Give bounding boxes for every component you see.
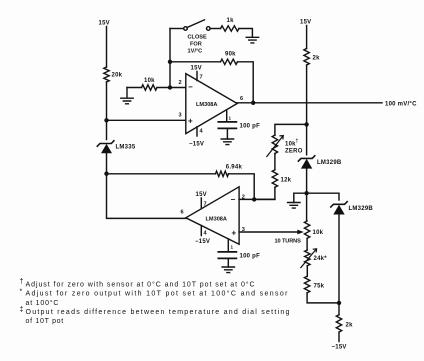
node 15V supply (right) label bbox=[300, 20, 311, 26]
svg-text:100 pF: 100 pF bbox=[240, 254, 261, 260]
ground (U2 cap) bbox=[222, 267, 234, 273]
svg-text:−: − bbox=[231, 195, 236, 204]
svg-text:15V: 15V bbox=[196, 192, 207, 198]
wire trimmer to R 75k bbox=[306, 266, 308, 277]
resistor 12k bbox=[272, 170, 277, 188]
wire R2k to -15V bbox=[338, 332, 340, 341]
node sensor bottom junction bbox=[104, 172, 108, 176]
svg-text:3: 3 bbox=[242, 227, 245, 233]
wire feedback left to R 90k bbox=[170, 61, 221, 63]
wire U1 output line bbox=[237, 102, 382, 104]
svg-text:1V/°C: 1V/°C bbox=[188, 49, 203, 55]
resistor 90k bbox=[221, 59, 238, 64]
switch S1 bbox=[170, 28, 184, 30]
svg-text:75k: 75k bbox=[314, 284, 325, 290]
svg-text:CLOSE: CLOSE bbox=[188, 35, 208, 41]
svg-text:LM335: LM335 bbox=[116, 145, 136, 151]
capacitor 100 pF (U2 comp) bbox=[227, 239, 229, 252]
node -15V supply label bbox=[332, 345, 347, 351]
trimmer 24k* bbox=[305, 250, 310, 266]
svg-text:LM329B: LM329B bbox=[349, 206, 374, 212]
svg-text:24k*: 24k* bbox=[314, 256, 328, 262]
svg-text:2: 2 bbox=[179, 80, 182, 86]
resistor 75k bbox=[304, 276, 309, 293]
resistor 2k (pull-up) bbox=[304, 49, 309, 66]
svg-text:Output reads difference betwee: Output reads difference between temperat… bbox=[26, 309, 291, 316]
resistor 2k (to -15V) bbox=[336, 315, 341, 332]
ground (U1 cap) bbox=[221, 139, 233, 145]
svg-text:Adjust for zero with sensor at: Adjust for zero with sensor at 0°C and 1… bbox=[26, 281, 256, 289]
svg-text:LM329B: LM329B bbox=[317, 160, 342, 166]
svg-text:LM308A: LM308A bbox=[196, 102, 217, 108]
node feedback-output junction bbox=[251, 101, 255, 105]
sensor LM335 bbox=[97, 141, 114, 153]
svg-text:*: * bbox=[20, 289, 24, 296]
svg-text:6.94k: 6.94k bbox=[226, 164, 243, 170]
svg-text:1k: 1k bbox=[227, 18, 235, 24]
zener LM329B (left) bbox=[298, 156, 314, 169]
wire bottom node to R 2k bbox=[338, 303, 340, 315]
svg-text:FOR: FOR bbox=[190, 42, 202, 48]
wire R75k to bottom node bbox=[307, 293, 339, 303]
wire zero pot to R 12k bbox=[274, 154, 276, 170]
svg-text:6: 6 bbox=[240, 96, 243, 102]
resistor 10k bbox=[142, 85, 157, 90]
svg-text:†: † bbox=[20, 279, 25, 286]
node sensor top junction bbox=[104, 118, 108, 122]
wire R1k to ground bbox=[239, 29, 252, 38]
svg-text:15V: 15V bbox=[191, 66, 202, 72]
resistor 20k bbox=[104, 67, 109, 82]
svg-text:3: 3 bbox=[179, 113, 182, 119]
node 15V supply (left) label bbox=[99, 21, 110, 27]
svg-text:100 pF: 100 pF bbox=[240, 124, 261, 130]
wire R90k down to output bbox=[238, 62, 254, 103]
wire 20k to sensor top node bbox=[106, 82, 108, 140]
pin 7 U1 bbox=[196, 72, 198, 81]
wire ground to R 10k bbox=[127, 87, 142, 89]
zener LM329B (right) bbox=[331, 202, 347, 215]
svg-text:−15V: −15V bbox=[332, 345, 347, 351]
wire 15V right to R 2k bbox=[306, 26, 308, 49]
ground (left, at R10k) bbox=[121, 88, 133, 104]
svg-text:7: 7 bbox=[204, 202, 207, 208]
resistor 1k bbox=[221, 26, 239, 31]
svg-text:7: 7 bbox=[200, 75, 203, 81]
svg-text:15V: 15V bbox=[99, 21, 110, 27]
node U2 feedback junction bbox=[252, 197, 256, 201]
svg-text:†: † bbox=[296, 139, 299, 145]
svg-text:100 mV/°C: 100 mV/°C bbox=[385, 101, 417, 107]
svg-text:1: 1 bbox=[229, 116, 232, 121]
svg-text:10k: 10k bbox=[144, 78, 155, 84]
svg-text:12k: 12k bbox=[281, 178, 292, 184]
svg-text:at 100°C: at 100°C bbox=[26, 299, 60, 307]
svg-text:−: − bbox=[188, 83, 193, 92]
wire pot to trimmer bbox=[306, 238, 308, 250]
wire bottom node down and right to U2 output bbox=[107, 174, 186, 219]
wire R6.94k to U2 pin 2 node bbox=[229, 174, 255, 200]
svg-text:4: 4 bbox=[200, 129, 204, 135]
node bottom junction bbox=[337, 301, 341, 305]
wire zener 2 down to bottom node bbox=[338, 215, 340, 303]
svg-text:4: 4 bbox=[204, 231, 208, 237]
potentiometer 10k ZERO bbox=[272, 135, 277, 153]
wire 15V left down to R 20k bbox=[106, 27, 108, 68]
capacitor 100 pF (U1 comp) bbox=[226, 111, 228, 122]
svg-text:+: + bbox=[232, 229, 237, 238]
svg-text:of 10T pot: of 10T pot bbox=[26, 318, 64, 325]
svg-text:−15V: −15V bbox=[195, 239, 210, 245]
pin 7 U2 bbox=[200, 198, 202, 209]
wire R12k down to U2 pin 2 line bbox=[254, 187, 275, 199]
wire node to op-amp U1 pin 3 bbox=[107, 119, 186, 121]
svg-text:1: 1 bbox=[231, 245, 234, 250]
wire main to 10T pot bbox=[306, 193, 308, 221]
wire U2 pin 3 to pot wiper bbox=[239, 231, 299, 233]
svg-text:ZERO: ZERO bbox=[285, 148, 303, 154]
wire main vertical below output bbox=[306, 103, 308, 155]
svg-text:10 TURNS: 10 TURNS bbox=[275, 239, 302, 245]
svg-text:10k: 10k bbox=[285, 141, 296, 147]
node reference ground junction bbox=[304, 191, 308, 195]
op-amp U2 LM308A (mirrored) bbox=[186, 187, 239, 245]
pin 4 U1 bbox=[196, 127, 198, 136]
op-amp U1 LM308A bbox=[186, 74, 237, 134]
resistor 6.94k bbox=[216, 171, 229, 176]
svg-text:10k: 10k bbox=[313, 230, 324, 236]
wire zener to ground node bbox=[306, 169, 308, 194]
wire R2k to output line bbox=[306, 65, 308, 103]
node zero-branch junction bbox=[304, 122, 308, 126]
svg-text:LM308A: LM308A bbox=[206, 216, 227, 222]
svg-text:‡: ‡ bbox=[20, 307, 25, 314]
wire U2 pin 2 line bbox=[239, 198, 275, 200]
node feedback junction bbox=[168, 60, 172, 64]
svg-text:6: 6 bbox=[181, 210, 184, 216]
svg-text:90k: 90k bbox=[225, 52, 236, 58]
svg-text:2k: 2k bbox=[346, 323, 354, 329]
wire switch branch vertical bbox=[169, 29, 171, 88]
wire node to zener 2 branch bbox=[307, 193, 339, 200]
potentiometer 10k 10 TURNS bbox=[304, 221, 309, 238]
pin 4 U2 bbox=[200, 226, 202, 236]
ground (reference) bbox=[288, 203, 300, 209]
svg-text:Adjust for zero output with 10: Adjust for zero output with 10T pot set … bbox=[26, 290, 289, 298]
svg-text:−15V: −15V bbox=[189, 142, 204, 148]
wire R10k to U1 pin 2 bbox=[157, 87, 186, 89]
wiper arrow bbox=[297, 230, 304, 235]
svg-text:20k: 20k bbox=[112, 73, 123, 79]
wire sensor bottom node to R 6.94k bbox=[107, 173, 216, 175]
wire switch to R 1k bbox=[210, 28, 220, 30]
svg-text:+: + bbox=[188, 117, 193, 126]
node U1 inverting input junction bbox=[168, 85, 172, 89]
wire node to ground bbox=[294, 193, 307, 202]
svg-text:2k: 2k bbox=[313, 56, 321, 62]
wire branch to zero pot bbox=[275, 124, 307, 135]
svg-text:15V: 15V bbox=[300, 20, 311, 26]
ground (switch) bbox=[246, 37, 258, 43]
wire sensor to bottom node bbox=[106, 154, 108, 174]
